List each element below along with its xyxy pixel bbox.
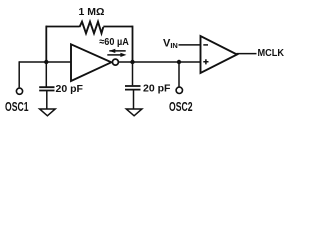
inverter U1 output bubble [112,59,118,65]
capacitor C1 top lead [45,62,47,87]
svg-text:20 pF: 20 pF [56,83,84,95]
node junction OSC2 [177,60,181,64]
resistor R 1 MΩ zigzag [80,22,104,34]
wire top feedback horizontal left segment [46,26,80,28]
wire OSC2 drop [178,62,180,87]
node junction right feedback / C2 [130,60,134,64]
capacitor C2 plates 20 pF [125,86,141,90]
wire left feedback vertical [45,26,47,62]
ground (C1) [40,109,56,116]
wire OSC1 drop [18,61,20,87]
pin plus sign [203,59,208,64]
svg-text:OSC2: OSC2 [169,100,193,114]
wire top feedback horizontal right segment [103,26,132,28]
svg-text:MCLK: MCLK [258,48,285,59]
current arrow left (top) [109,50,125,52]
ground (C2) [126,109,142,116]
node junction left (feedback / C1) [44,60,48,64]
svg-text:1 MΩ: 1 MΩ [79,6,105,18]
wire comparator output [237,53,257,55]
svg-text:OSC1: OSC1 [5,100,29,114]
terminal OSC1 circle [16,88,22,94]
capacitor C2 bottom lead [133,90,135,109]
capacitor C2 top lead [132,62,134,85]
svg-text:≈60 µA: ≈60 µA [99,36,129,48]
capacitor C1 plates 20 pF [39,87,54,90]
svg-text:20 pF: 20 pF [143,83,171,95]
wire inverter output to comparator [118,61,200,63]
capacitor C1 bottom lead [46,91,48,110]
terminal OSC2 circle [176,87,182,93]
pin minus sign [203,44,208,46]
op-amp U2 comparator triangle [201,36,238,73]
current arrow right (bottom) [107,54,121,56]
wire main horizontal OSC1 to inverter input [19,61,71,63]
wire VIN to comparator minus input [179,44,201,46]
inverter U1 triangle [71,44,111,81]
wire right feedback vertical [132,26,134,62]
